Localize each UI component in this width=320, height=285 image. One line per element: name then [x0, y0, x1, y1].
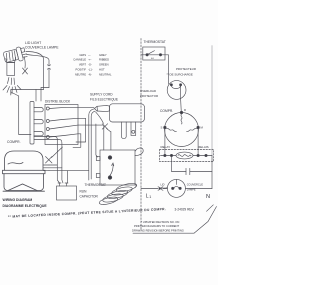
wire S to relay	[164, 129, 166, 156]
block internal wire pin 4	[49, 134, 78, 137]
bar tab 1	[34, 108, 43, 112]
capacitor feed wire 1	[34, 137, 60, 184]
N conductor right rail (upper)	[211, 46, 213, 156]
thermostat terminal dot upper	[108, 156, 112, 160]
svg-text:POSITIF: POSITIF	[76, 68, 87, 72]
title block text	[3, 198, 48, 208]
wire bulb lead diagonal	[11, 92, 19, 96]
svg-text:RELAY: RELAY	[161, 145, 171, 149]
overload bimetal element	[171, 86, 180, 89]
supply cord boot	[95, 105, 110, 111]
compressor terminal M (right)	[197, 126, 200, 129]
ground wire from splice	[52, 147, 63, 158]
note underline	[133, 232, 194, 234]
revision flag diagonal	[194, 207, 217, 234]
wire overload to compressor	[180, 86, 183, 113]
svg-text:-G-: -G-	[88, 63, 92, 67]
svg-text:GRIS: GRIS	[79, 53, 86, 57]
capacitor terminals	[58, 183, 68, 186]
lamp contact right	[179, 187, 181, 189]
svg-text:CANNELE: CANNELE	[73, 58, 86, 62]
wire block to cord boot	[78, 106, 94, 108]
wire bus to block top	[35, 90, 37, 102]
compressor wire to capacitor 1	[49, 164, 57, 166]
winding squiggle M	[187, 128, 197, 131]
svg-text:** DE SURCHARGE: ** DE SURCHARGE	[167, 72, 193, 76]
svg-text:COUVERCLE LAMPE: COUVERCLE LAMPE	[25, 46, 59, 50]
schematic: thermostat contact right	[159, 54, 161, 56]
wire to thermostat top A	[103, 125, 105, 150]
compressor wire to capacitor 3	[49, 171, 89, 183]
supply cord label	[90, 93, 118, 102]
svg-text:LAMPE: LAMPE	[187, 188, 196, 192]
svg-text:RELAIS: RELAIS	[198, 145, 209, 149]
svg-text:---: ---	[88, 54, 91, 57]
overload contact right	[180, 84, 182, 86]
svg-text:CAPACITOR: CAPACITOR	[80, 195, 99, 199]
svg-text:NEUTRE: NEUTRE	[75, 72, 86, 76]
winding squiggle R	[181, 114, 182, 124]
wire bulb circuit to terminal bar	[19, 96, 31, 135]
run capacitor C1 (pictorial)	[57, 186, 77, 200]
inline connector symbol	[158, 187, 163, 190]
svg-text:LIGHT: LIGHT	[160, 186, 168, 190]
compressor body	[4, 174, 44, 191]
svg-text:RIBBED: RIBBED	[99, 58, 109, 62]
svg-text:COUVERCLE: COUVERCLE	[187, 183, 203, 187]
svg-text:LID LIGHT: LID LIGHT	[25, 41, 41, 45]
wire splice tail	[107, 129, 111, 132]
lamp stem	[175, 179, 177, 184]
wire block to junction bus B	[73, 134, 81, 148]
label LID LIGHT / COUVERCLE LAMPE	[25, 41, 59, 50]
relay labels	[161, 145, 209, 149]
svg-text:PROTECTOR: PROTECTOR	[140, 94, 158, 98]
relay coil	[176, 152, 193, 159]
compressor band	[3, 170, 46, 173]
thermostat right capillary loop	[135, 148, 143, 156]
svg-text:1: 1	[149, 195, 151, 199]
bar tab 2	[34, 120, 43, 124]
schematic: switch wire	[148, 54, 159, 56]
block internal wire pin 3	[49, 125, 78, 129]
relay contact 2	[170, 154, 172, 156]
wire M to relay	[197, 129, 199, 156]
wire to thermostat top B	[110, 132, 112, 151]
compressor terminal S (left)	[164, 126, 167, 129]
wire down to block tab row	[41, 88, 49, 102]
compressor dome	[3, 151, 46, 191]
bar tab 3	[34, 132, 43, 136]
lamp labels	[160, 183, 203, 192]
svg-text:THERMOSTAT: THERMOSTAT	[144, 40, 166, 44]
schematic: feed wire L1	[141, 54, 146, 56]
ground splice X on compressor	[46, 157, 53, 164]
svg-text:COMPR.: COMPR.	[160, 109, 173, 113]
thermostat (pictorial) box	[100, 150, 135, 185]
wire socket to splice	[24, 57, 25, 69]
capacitor feed wire 2	[34, 140, 63, 184]
relay box (dashed)	[160, 150, 214, 162]
svg-text:S: S	[161, 126, 163, 130]
svg-text:PROTECTEUR: PROTECTEUR	[176, 67, 196, 71]
schematic: switch arm	[148, 51, 155, 55]
overload contact left	[170, 84, 172, 86]
relay contact 1	[164, 154, 166, 156]
svg-text:-N-: -N-	[88, 72, 92, 76]
block pin 4	[46, 136, 49, 139]
compressor motor circle	[165, 113, 199, 147]
svg-text:GREEN: GREEN	[99, 63, 109, 67]
svg-text:R: R	[184, 108, 186, 112]
overload protector circle	[167, 81, 186, 100]
svg-text:DIAGRAMME ELECTRIQUE: DIAGRAMME ELECTRIQUE	[3, 204, 48, 208]
terminal bar	[30, 102, 34, 145]
supply cord conductor 2	[91, 111, 95, 179]
compressor terminals	[44, 165, 50, 171]
svg-text:NEUTRAL: NEUTRAL	[99, 72, 112, 76]
thermostat switch arm	[110, 163, 114, 176]
bottom rail L1	[141, 188, 167, 190]
svg-text:PRINTED DIAGRAMS TO CURRENT: PRINTED DIAGRAMS TO CURRENT	[134, 224, 180, 228]
svg-text:DRAWING REVISION BEFORE PRINTI: DRAWING REVISION BEFORE PRINTING	[132, 228, 184, 232]
svg-text:DISTRIB. BLOCK: DISTRIB. BLOCK	[45, 100, 71, 104]
compressor wire to capacitor 2	[49, 167, 62, 169]
run capacitor branch	[172, 157, 213, 172]
svg-text:SUPPLY CORD: SUPPLY CORD	[90, 93, 113, 97]
thermostat left tab 2	[96, 174, 100, 178]
overload labels	[140, 67, 196, 98]
connector symbol	[48, 65, 50, 70]
capacitor plates	[186, 168, 190, 174]
winding squiggle S	[167, 128, 177, 131]
svg-text:WIRING DIAGRAM: WIRING DIAGRAM	[3, 198, 33, 202]
capillary coil	[99, 182, 138, 206]
lamp filament	[174, 187, 179, 189]
lamp bulb base cylinder	[7, 63, 15, 76]
compressor terminal R (top)	[180, 111, 183, 114]
lamp circle	[167, 179, 185, 197]
lamp socket (pictorial)	[3, 46, 28, 65]
relay contact 3	[197, 154, 199, 156]
svg-text:VERT: VERT	[79, 63, 86, 67]
wire thermostat to overload	[162, 55, 169, 84]
revision note	[132, 220, 184, 232]
wire socket top terminal to vertical run	[26, 52, 44, 90]
N rail vertical	[211, 156, 213, 189]
svg-text:THERMOSTAT: THERMOSTAT	[85, 183, 107, 187]
wire block to junction bus A	[76, 118, 86, 142]
boot seam	[96, 106, 99, 111]
light bulb rays	[3, 78, 21, 94]
block pin 2	[46, 120, 49, 123]
thermostat terminal dot lower	[108, 176, 112, 180]
lamp holder neck	[6, 58, 16, 63]
splice X (socket to bulb)	[23, 68, 28, 74]
wire block to thermostat	[78, 124, 104, 126]
wire boot to splice	[96, 112, 104, 124]
supply cord conductor 1	[89, 109, 95, 180]
svg-text:FILS ELECTRIQUE: FILS ELECTRIQUE	[90, 98, 118, 102]
colour legend	[73, 53, 112, 77]
lamp contact left	[172, 187, 174, 189]
plug prong 1	[121, 122, 126, 139]
schematic: thermostat contact left	[146, 54, 148, 56]
schematic: thermostat box	[143, 47, 165, 60]
svg-text:3-24029 REV.: 3-24029 REV.	[175, 208, 195, 212]
block pin 3	[46, 128, 49, 131]
wire to thermostat tab	[96, 124, 98, 157]
svg-text:RUN: RUN	[80, 190, 88, 194]
svg-text:-+-: -+-	[88, 59, 91, 62]
wire connector on second run	[27, 55, 50, 88]
dashed panel divider	[140, 39, 142, 231]
block internal wire pin 2	[49, 118, 78, 121]
svg-text:* UPDATED REVISION NO. ON: * UPDATED REVISION NO. ON	[141, 220, 179, 224]
svg-text:GREY: GREY	[99, 53, 107, 57]
svg-text:OVERLOAD: OVERLOAD	[140, 89, 156, 93]
block pin 1	[46, 107, 49, 110]
ground splice X near cord	[102, 124, 108, 130]
relay coil squiggle	[178, 155, 191, 157]
wire bulb down to bus	[11, 90, 44, 96]
plug prong 2 (with hole)	[131, 122, 136, 135]
thermostat left tab 1	[96, 157, 100, 161]
relay wire	[161, 155, 213, 157]
distribution block box	[45, 105, 78, 145]
block internal wire pin 1	[49, 107, 78, 108]
svg-text:-L1-: -L1-	[88, 68, 93, 72]
wire lamp to N rail	[185, 188, 212, 190]
relay contact 4	[205, 154, 207, 156]
plug body	[110, 104, 145, 122]
svg-text:COMPR.: COMPR.	[7, 140, 21, 144]
svg-text:HOT: HOT	[99, 68, 105, 72]
svg-text:N: N	[206, 194, 210, 200]
